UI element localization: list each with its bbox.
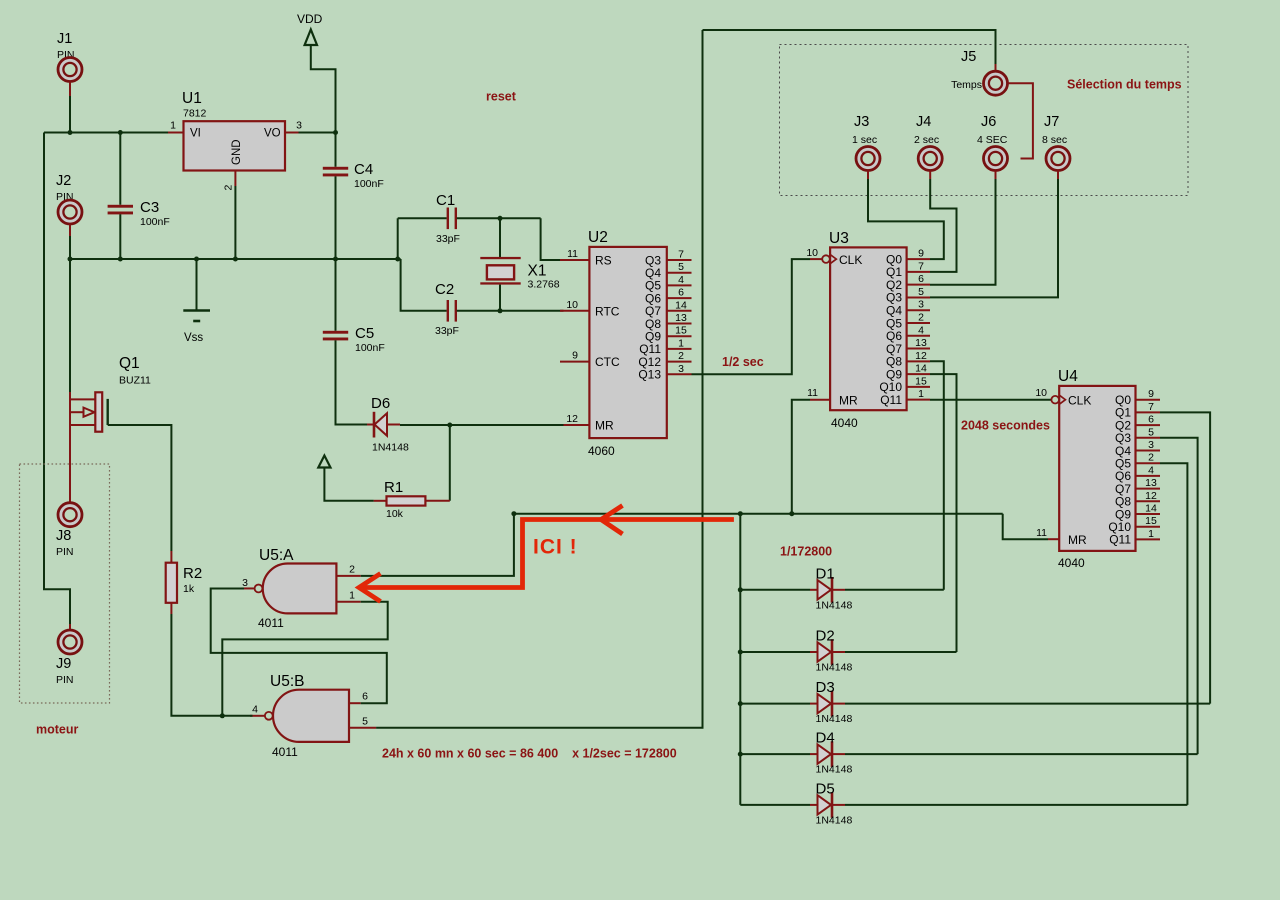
svg-text:D5: D5 [816, 780, 835, 797]
annotation red arrowhead end [359, 574, 381, 602]
wire U2 MR row [400, 424, 564, 426]
wire D1 to Q8 net [845, 589, 944, 591]
svg-text:RS: RS [595, 254, 612, 268]
wire U3 Q11 to U4 CLK [930, 399, 1051, 401]
pin U2.1 Q11 stub [667, 348, 692, 350]
pin U3.12 Q8 stub [907, 360, 930, 362]
wire J6 to U3 Q2 [930, 179, 996, 285]
transistor Q1 bulk arrow [69, 411, 84, 413]
node mid rail junctions [118, 257, 123, 262]
node C1-X1 junction [498, 216, 503, 221]
jumper bracket at J5 [1009, 83, 1033, 158]
svg-text:U5:A: U5:A [259, 547, 294, 564]
wire Q1 drain to J8 [69, 425, 71, 503]
pin U4.15 Q10 stub [1136, 526, 1161, 528]
pin U4.1 Q11 stub [1136, 538, 1161, 540]
svg-text:D4: D4 [816, 730, 835, 747]
svg-text:U1: U1 [182, 90, 202, 107]
pin U2.4 Q5 stub [667, 284, 692, 286]
IC U1 7812 body [184, 121, 286, 170]
pin U3.13 Q7 stub [907, 348, 930, 350]
pin U2.12 MR stub [560, 424, 589, 426]
wire U1 VO to VDD junction [299, 132, 336, 134]
svg-text:moteur: moteur [36, 723, 79, 737]
svg-text:1: 1 [170, 120, 176, 132]
svg-text:1N4148: 1N4148 [816, 662, 853, 674]
pin U3.1 Q11 stub [907, 399, 930, 401]
node J1 junction [68, 130, 73, 135]
svg-text:PIN: PIN [56, 674, 74, 686]
svg-text:5: 5 [918, 286, 924, 298]
svg-text:J4: J4 [916, 114, 931, 130]
diode D6 lead left [367, 424, 374, 426]
svg-text:1N4148: 1N4148 [816, 764, 853, 776]
pin U2.3 Q13 stub [667, 373, 692, 375]
wire U5:B out to U5:A in1 [222, 602, 387, 716]
svg-text:R1: R1 [384, 479, 403, 496]
wire R1 left to power arrow [324, 468, 373, 501]
svg-text:MR: MR [595, 419, 614, 433]
svg-text:4011: 4011 [258, 616, 284, 630]
svg-text:PIN: PIN [56, 546, 74, 558]
svg-text:10: 10 [1035, 387, 1047, 399]
pin U5:A.2 stub [336, 575, 360, 577]
svg-text:CTC: CTC [595, 355, 620, 369]
resistor R1 body [387, 496, 426, 505]
node diode chain junctions [738, 587, 743, 592]
pin U2.15 Q9 stub [667, 335, 692, 337]
svg-text:4011: 4011 [272, 745, 298, 759]
crystal X1 bottom lead [499, 285, 501, 311]
wire D2 anode lead [740, 651, 810, 653]
wire U3 MR down to reset net [792, 400, 810, 514]
svg-text:2048 secondes: 2048 secondes [961, 419, 1050, 433]
svg-text:Q13: Q13 [638, 368, 661, 382]
svg-text:10k: 10k [386, 508, 404, 520]
svg-text:100nF: 100nF [354, 178, 384, 190]
pin U5:A.1 stub [336, 601, 360, 603]
wire U4 Q3 to D4 [1160, 438, 1198, 754]
pin U4.11 MR stub [1048, 538, 1059, 540]
transistor Q1 left leads [69, 392, 71, 425]
wire J4 to U3 Q1 [930, 179, 957, 272]
transistor Q1 gate plate [106, 399, 108, 425]
wire U3 Q8 to D1 [930, 361, 944, 590]
wire reset net to U4 MR [1003, 514, 1048, 540]
wire reset net horizontal [514, 513, 1003, 515]
svg-text:10: 10 [566, 299, 578, 311]
crystal X1 top lead [499, 218, 501, 257]
svg-text:reset: reset [486, 90, 517, 104]
svg-text:J7: J7 [1044, 114, 1059, 130]
svg-text:15: 15 [675, 325, 687, 337]
wire reset net to U5:A pin2 [361, 514, 514, 576]
svg-text:15: 15 [1145, 515, 1157, 527]
svg-text:3: 3 [296, 120, 302, 132]
capacitor C5 plates [323, 331, 348, 334]
transistor Q1 channel bar [95, 392, 102, 431]
wire U4 Q1 to D3 [1160, 412, 1210, 703]
wire D3 right [845, 703, 1210, 705]
wire diode chain vertical [739, 514, 741, 805]
svg-text:11: 11 [567, 248, 578, 260]
svg-text:6: 6 [918, 273, 924, 285]
svg-text:3: 3 [918, 299, 924, 311]
svg-text:100nF: 100nF [140, 216, 170, 228]
svg-text:3: 3 [242, 577, 248, 589]
pin U5:A.3 stub [241, 587, 254, 589]
node VO junction [333, 130, 338, 135]
svg-text:3: 3 [678, 363, 684, 375]
svg-text:R2: R2 [183, 565, 202, 582]
svg-text:VO: VO [264, 128, 281, 140]
IC U3 4040 body [830, 247, 907, 410]
wire D5 cathode lead [833, 804, 845, 806]
wire U1 pin3 stub [285, 132, 299, 134]
diode D5 [818, 795, 832, 814]
wire D4 anode lead [740, 753, 810, 755]
resistor R1 leads [374, 500, 387, 502]
moteur box dashed [20, 464, 110, 703]
pin U3.2 Q5 stub [907, 322, 930, 324]
svg-text:ICI !: ICI ! [533, 536, 578, 559]
svg-text:14: 14 [675, 299, 687, 311]
svg-text:4: 4 [252, 704, 258, 716]
svg-text:CLK: CLK [839, 253, 862, 267]
svg-text:2: 2 [918, 312, 924, 324]
wire D3 cathode lead [833, 703, 845, 705]
pin U2.13 Q8 stub [667, 323, 692, 325]
svg-text:J5: J5 [961, 49, 976, 65]
svg-text:1: 1 [678, 337, 684, 349]
svg-text:MR: MR [839, 393, 858, 407]
svg-text:C1: C1 [436, 192, 455, 209]
svg-text:15: 15 [915, 375, 927, 387]
pin U5:B.6 stub [349, 702, 361, 704]
svg-text:1N4148: 1N4148 [816, 814, 853, 826]
gate U5:A bubble [255, 585, 263, 593]
wire D4 right [845, 753, 1198, 755]
diode D4 [818, 744, 832, 763]
svg-text:U3: U3 [829, 230, 849, 247]
pin U3.4 Q6 stub [907, 335, 930, 337]
annotation red arrowhead mid [601, 506, 623, 535]
pin U3.10 CLK bubble [822, 255, 830, 263]
connector J4 pad [918, 147, 942, 171]
svg-text:Q11: Q11 [880, 393, 902, 407]
diode D2 [818, 642, 832, 661]
wire U5:A out to U5:B in6 [211, 588, 387, 703]
svg-text:3.2768: 3.2768 [528, 279, 560, 291]
svg-text:24h x 60 mn x 60 sec = 86 400: 24h x 60 mn x 60 sec = 86 400 x 1/2sec =… [382, 747, 677, 761]
svg-text:VI: VI [190, 128, 201, 140]
svg-text:1 sec: 1 sec [852, 134, 877, 146]
svg-text:C2: C2 [435, 281, 454, 298]
svg-text:5: 5 [362, 716, 368, 728]
wire D2 cathode lead [833, 651, 845, 653]
node C2-X1 junction [498, 308, 503, 313]
svg-text:2: 2 [349, 564, 355, 576]
svg-text:Q1: Q1 [119, 355, 140, 372]
svg-text:5: 5 [1148, 426, 1154, 438]
svg-text:C5: C5 [355, 325, 374, 342]
crystal X1 body [480, 257, 520, 259]
resistor R2 leads [170, 551, 172, 563]
svg-text:9: 9 [918, 248, 924, 260]
power VDD arrow [305, 30, 317, 46]
pin U2.6 Q6 stub [667, 297, 692, 299]
pin U4.4 Q6 stub [1136, 475, 1161, 477]
wire C4 bottom lead [335, 176, 337, 259]
annotation red arrow path [359, 520, 734, 588]
diode D1 [818, 580, 832, 599]
pin U2.10 RTC stub [560, 310, 589, 312]
svg-text:5: 5 [678, 261, 684, 273]
connector J6 pad [984, 147, 1008, 171]
wire U2.3 Q13 to U3 CLK [692, 259, 811, 374]
pin U5:B.4 stub [250, 715, 265, 717]
pin U3.5 Q3 stub [907, 296, 930, 298]
svg-text:U4: U4 [1058, 368, 1078, 385]
wire D2 to Q9 net [845, 651, 957, 653]
svg-text:2: 2 [678, 350, 684, 362]
pin U4.6 Q2 stub [1136, 424, 1161, 426]
diode D6 lead right [387, 424, 400, 426]
wire VDD stem [311, 45, 336, 133]
wire mid rail corner down to C2 row [401, 259, 447, 311]
svg-text:J1: J1 [57, 31, 72, 47]
svg-text:2: 2 [1148, 452, 1154, 464]
svg-text:6: 6 [678, 287, 684, 299]
svg-text:33pF: 33pF [435, 325, 459, 337]
svg-text:1: 1 [1148, 528, 1154, 540]
wire J4 stub [929, 171, 931, 179]
svg-text:1/2 sec: 1/2 sec [722, 355, 764, 369]
connector J2 pad [58, 200, 82, 224]
svg-text:14: 14 [1145, 503, 1157, 515]
wire J2 pin stub [69, 225, 71, 237]
wire U4 Q5 to D5 [1160, 463, 1187, 805]
wire D5 anode lead [740, 804, 810, 806]
svg-text:2: 2 [223, 185, 235, 191]
wire C1 row left [398, 217, 447, 219]
svg-text:100nF: 100nF [355, 342, 385, 354]
pin U2.7 Q3 stub [667, 259, 692, 261]
node MR-R1 junction [447, 423, 452, 428]
svg-text:X1: X1 [528, 263, 547, 280]
pin U2.2 Q12 stub [667, 361, 692, 363]
pin U3.6 Q2 stub [907, 284, 930, 286]
wire U3 Q9 to D2 [930, 374, 957, 652]
svg-text:VDD: VDD [297, 12, 323, 26]
svg-text:4: 4 [678, 274, 684, 286]
wire J1 to main node [69, 96, 71, 133]
diode D6 [375, 413, 388, 436]
svg-text:Temps: Temps [951, 79, 982, 91]
svg-text:3: 3 [1148, 439, 1154, 451]
svg-text:12: 12 [1145, 490, 1157, 502]
svg-text:11: 11 [807, 387, 818, 399]
svg-text:4040: 4040 [1058, 556, 1085, 570]
svg-text:1N4148: 1N4148 [816, 713, 853, 725]
pin U4.14 Q9 stub [1136, 513, 1161, 515]
connector J1 pad [58, 58, 82, 82]
IC U4 4040 body [1059, 386, 1135, 551]
pin U4.5 Q3 stub [1136, 437, 1161, 439]
pin U3.14 Q9 stub [907, 373, 930, 375]
svg-text:1/172800: 1/172800 [780, 545, 832, 559]
wire U1 GND pin2 stub [234, 171, 236, 187]
wire C3 top lead [119, 133, 121, 205]
gate U5:B bubble [265, 712, 273, 720]
capacitor C3 plates [108, 205, 133, 208]
pin U2.11 RS stub [560, 259, 589, 261]
svg-text:6: 6 [362, 691, 368, 703]
svg-text:CLK: CLK [1068, 393, 1091, 407]
svg-text:BUZ11: BUZ11 [119, 375, 151, 387]
gate U5:B body [273, 690, 349, 742]
svg-text:C3: C3 [140, 199, 159, 216]
wire top rail left segment [44, 132, 168, 134]
svg-text:7: 7 [1148, 401, 1154, 413]
pin U4.7 Q1 stub [1136, 411, 1161, 413]
svg-text:4: 4 [918, 324, 924, 336]
wire C1 to U2 RS [541, 218, 564, 260]
IC U2 4060 body [589, 247, 666, 438]
pin U5:B.5 stub [349, 727, 376, 729]
svg-text:J8: J8 [56, 528, 71, 544]
svg-text:U2: U2 [588, 229, 608, 246]
svg-text:1N4148: 1N4148 [816, 599, 853, 611]
connector J5 pad [984, 71, 1008, 95]
pin U2.14 Q7 stub [667, 310, 692, 312]
svg-text:12: 12 [915, 350, 927, 362]
svg-text:14: 14 [915, 363, 927, 375]
pin U3.15 Q10 stub [907, 386, 930, 388]
capacitor C4 plates [323, 167, 348, 170]
wire U5:B pin5 to reset line [376, 30, 702, 728]
svg-text:Sélection du temps: Sélection du temps [1067, 78, 1182, 92]
wire mid rail [70, 258, 401, 260]
ground symbol Vss [183, 309, 210, 312]
pin U2.9 CTC stub [560, 361, 589, 363]
wire D1 anode lead [740, 589, 810, 591]
wire C4 top lead [335, 133, 337, 167]
pin U2.5 Q4 stub [667, 272, 692, 274]
pin U4.13 Q7 stub [1136, 488, 1161, 490]
wire D4 cathode lead [833, 753, 845, 755]
svg-text:13: 13 [675, 312, 687, 324]
svg-text:D2: D2 [816, 628, 835, 645]
svg-text:9: 9 [572, 350, 578, 362]
wire C1 row right [457, 217, 541, 219]
wire J5 from reset line [703, 30, 996, 64]
svg-text:33pF: 33pF [436, 233, 460, 245]
wire J5 stub [995, 64, 997, 71]
resistor R2 body [166, 563, 177, 603]
svg-text:1: 1 [349, 590, 355, 602]
wire Q1 gate to R2 [108, 425, 172, 551]
wire D1 cathode lead [833, 589, 845, 591]
wire J7 to U3 Q3 [930, 179, 1058, 297]
wire R1 right vertical [449, 425, 451, 501]
svg-text:4060: 4060 [588, 444, 615, 458]
power arrow at R1 [318, 456, 330, 468]
svg-text:8 sec: 8 sec [1042, 134, 1067, 146]
svg-text:11: 11 [1036, 527, 1047, 539]
wire C5 top lead [335, 259, 337, 331]
svg-text:J6: J6 [981, 114, 996, 130]
wire C1 branch up [397, 218, 399, 259]
wire R2 to U5:B junction [171, 614, 222, 716]
wire C5 bottom lead to D6 row [336, 340, 368, 424]
wire J6 stub [995, 171, 997, 179]
wire J2 branch down to Q1 [69, 259, 71, 392]
svg-text:D6: D6 [371, 395, 390, 412]
svg-text:D1: D1 [816, 565, 835, 582]
svg-text:7812: 7812 [183, 108, 207, 120]
wire J1 pin stub [69, 82, 71, 96]
wire D5 right [845, 804, 1187, 806]
svg-text:Vss: Vss [184, 332, 203, 344]
diode D3 [818, 694, 832, 713]
wire C3 bottom lead [119, 214, 121, 259]
connector J8 pad [58, 503, 82, 527]
capacitor C1 plates [447, 208, 449, 230]
gate U5:A body [263, 564, 337, 614]
wire ground drop [196, 259, 198, 311]
connector J9 stub [69, 624, 71, 631]
node U5:B output junction [220, 713, 225, 718]
pin U4.9 Q0 stub [1136, 399, 1161, 401]
svg-text:RTC: RTC [595, 304, 620, 318]
node J2 junction [68, 257, 73, 262]
pin U3.7 Q1 stub [907, 271, 930, 273]
svg-text:4040: 4040 [831, 416, 858, 430]
pin U3.9 Q0 stub [907, 258, 930, 260]
svg-text:GND: GND [231, 139, 243, 165]
wire D3 anode lead [740, 703, 810, 705]
svg-text:1N4148: 1N4148 [372, 442, 409, 454]
pin U4.10 CLK bubble [1051, 396, 1059, 404]
svg-text:1k: 1k [183, 583, 195, 595]
svg-text:10: 10 [806, 247, 818, 259]
pin U3.11 MR stub [810, 399, 830, 401]
selection box dashed [780, 45, 1189, 196]
svg-text:2 sec: 2 sec [914, 134, 939, 146]
wire C2 row right [457, 310, 564, 312]
svg-text:4 SEC: 4 SEC [977, 134, 1008, 146]
svg-text:MR: MR [1068, 533, 1087, 547]
svg-text:13: 13 [1145, 477, 1157, 489]
svg-text:D3: D3 [816, 679, 835, 696]
capacitor C2 plates [447, 300, 449, 322]
svg-text:C4: C4 [354, 161, 373, 178]
pin U3.3 Q4 stub [907, 309, 930, 311]
wire U1 pin1 stub [168, 132, 184, 134]
wire left drop to J9 branch [44, 133, 70, 625]
svg-text:7: 7 [918, 260, 924, 272]
wire U1 GND to mid rail [234, 186, 236, 259]
connector J3 pad [856, 147, 880, 171]
svg-text:J3: J3 [854, 114, 869, 130]
svg-text:6: 6 [1148, 414, 1154, 426]
wire J3 to U3 Q0 [868, 179, 944, 259]
svg-text:4: 4 [1148, 464, 1154, 476]
svg-text:9: 9 [1148, 388, 1154, 400]
svg-text:12: 12 [566, 413, 578, 425]
pin U4.12 Q8 stub [1136, 500, 1161, 502]
